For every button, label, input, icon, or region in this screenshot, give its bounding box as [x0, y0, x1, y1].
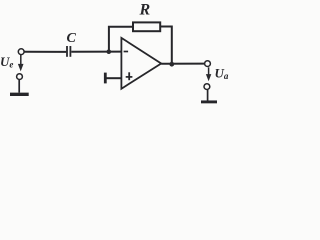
capacitor C right plate: [69, 46, 71, 57]
resistor R body: [133, 22, 160, 31]
junction node at output: [169, 62, 174, 67]
wire resistor to right corner and down to output node: [160, 27, 172, 65]
svg-text:Ua: Ua: [215, 65, 229, 81]
op-amp U1 triangle: [121, 38, 161, 89]
arrowhead Ua: [206, 74, 211, 81]
lower terminal circle (left): [17, 74, 23, 80]
ground bar (left): [10, 93, 29, 96]
ground stem (right): [207, 90, 209, 101]
arrowhead Ue: [18, 64, 24, 72]
svg-text:R: R: [139, 2, 151, 19]
wire input terminal to capacitor: [24, 51, 66, 53]
wire non-inverting input to ground bar: [106, 77, 121, 79]
wire op-amp output to output terminal: [161, 63, 204, 65]
svg-text:Ue: Ue: [0, 54, 13, 70]
ground bar at non-inverting input: [104, 73, 107, 84]
wire feedback left vertical + top horizontal to resistor: [109, 27, 133, 52]
op-amp minus sign (inverting input): [124, 51, 129, 53]
ground stem (left): [18, 80, 20, 93]
svg-text:C: C: [67, 31, 77, 46]
junction node at inverting input: [107, 49, 112, 54]
op-amp plus sign (non-inverting input): [126, 76, 133, 78]
lower terminal circle (right): [204, 84, 210, 90]
output terminal circle (top right): [205, 61, 211, 67]
wire capacitor to op-amp inverting input: [71, 51, 121, 53]
voltage arrow Ue shaft: [20, 55, 22, 65]
voltage arrow Ua shaft: [208, 67, 210, 76]
capacitor C left plate: [66, 46, 68, 57]
input terminal circle (top left): [18, 49, 24, 55]
ground bar (right): [201, 100, 217, 103]
